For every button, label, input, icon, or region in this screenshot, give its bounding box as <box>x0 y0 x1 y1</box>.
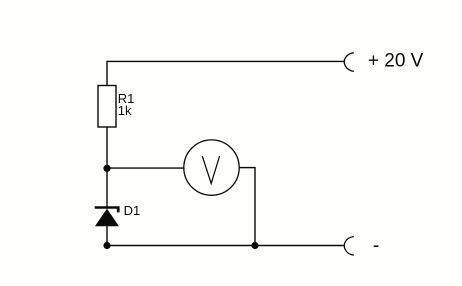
wire from node A to voltmeter left <box>107 167 184 169</box>
terminal +20V socket symbol <box>344 53 354 72</box>
terminal minus socket symbol <box>344 237 354 256</box>
svg-text:D1: D1 <box>124 203 141 218</box>
svg-text:+ 20 V: + 20 V <box>368 50 424 71</box>
wire from zener D1 anode to bottom node B <box>106 226 108 246</box>
wire bottom rail from node B to minus terminal <box>107 245 344 247</box>
wire vertical from top rail to resistor R1 top <box>106 61 108 86</box>
wire from voltmeter right toward drop <box>239 167 255 169</box>
node B junction dot (bottom left) <box>103 242 110 249</box>
resistor R1 <box>98 86 116 128</box>
label R1 <box>118 91 135 106</box>
wire top rail from corner to +20V terminal <box>107 60 344 62</box>
wire from resistor bottom to node A <box>106 127 108 168</box>
label D1 <box>124 203 141 218</box>
svg-text:-: - <box>373 235 379 256</box>
label minus <box>373 235 379 256</box>
node A junction dot <box>103 165 110 172</box>
value 1k <box>118 103 132 118</box>
voltmeter U1 body <box>184 140 239 195</box>
wire from node A down to zener D1 cathode <box>106 168 108 207</box>
label + 20 V <box>368 50 424 71</box>
wire vertical drop to bottom rail <box>254 167 256 246</box>
zener diode D1 <box>95 206 120 226</box>
voltmeter V glyph <box>202 156 219 183</box>
svg-text:1k: 1k <box>118 103 132 118</box>
node C junction dot (bottom middle) <box>251 242 258 249</box>
